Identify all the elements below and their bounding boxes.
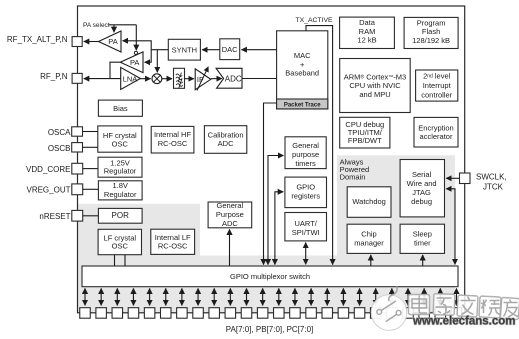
wire: GPIO pin 18 to mux (bidirectional) bbox=[359, 288, 361, 305]
wire: GPIO pin 10 to mux (bidirectional) bbox=[229, 288, 231, 305]
wire: GPIO pin 20 to mux (bidirectional) bbox=[391, 288, 393, 305]
pin VREG_OUT bbox=[72, 184, 83, 195]
GPIO pin 21 (PA/PB/PC) bbox=[403, 308, 414, 319]
wire: GPIO pin 13 to mux (bidirectional) bbox=[278, 288, 280, 305]
svg-text:Regulator: Regulator bbox=[104, 190, 137, 199]
wire VDD_CORE to 1.25V regulator bbox=[83, 168, 98, 170]
pin VDD_CORE bbox=[72, 163, 83, 174]
wire: GPIO pin 17 to mux (bidirectional) bbox=[342, 288, 344, 305]
wire: SYNTH LO to mixer bbox=[156, 50, 158, 73]
wire: GPIO pin 23 to mux (bidirectional) bbox=[439, 288, 441, 305]
chip boundary bbox=[78, 6, 465, 313]
svg-text:manager: manager bbox=[354, 238, 384, 247]
svg-text:registers: registers bbox=[291, 191, 320, 200]
wire: GPIO pin 11 to mux (bidirectional) bbox=[246, 288, 248, 305]
GPIO pin 3 (PA/PB/PC) bbox=[112, 308, 123, 319]
svg-text:RAM: RAM bbox=[359, 27, 376, 36]
GPIO pin 9 (PA/PB/PC) bbox=[209, 308, 220, 319]
wire: GPIO pin 3 to mux (bidirectional) bbox=[116, 288, 118, 305]
amplifier LNA bbox=[121, 67, 141, 89]
svg-text:Domain: Domain bbox=[340, 173, 366, 182]
svg-text:GPIO multiplexor switch: GPIO multiplexor switch bbox=[230, 272, 310, 281]
wire: PA1 output to RF_TX_ALT pin bbox=[84, 41, 99, 43]
svg-text:12 kB: 12 kB bbox=[357, 36, 376, 45]
wire: Serial Wire debug to mux (via JTAG) bbox=[446, 189, 455, 265]
wire: IF amp to ADC bbox=[211, 78, 222, 80]
svg-text:DAC: DAC bbox=[222, 45, 238, 54]
block Watchdog bbox=[347, 187, 391, 218]
wire: GPIO pin 24 to mux (bidirectional) bbox=[455, 288, 457, 305]
wire OSCB to HF crystal OSC bbox=[83, 146, 98, 148]
svg-text:Interrupt: Interrupt bbox=[423, 81, 452, 90]
wire: Packet Trace to mux bbox=[264, 103, 277, 265]
block MAC + Baseband bbox=[277, 31, 328, 109]
amplifier PA1 (RF_TX_ALT path) bbox=[99, 31, 122, 52]
GPIO pin 13 (PA/PB/PC) bbox=[274, 308, 285, 319]
wire: GPIO pin 5 to mux (bidirectional) bbox=[149, 288, 151, 305]
svg-text:ADC: ADC bbox=[218, 139, 234, 148]
wire: filter to IF amp bbox=[185, 78, 194, 80]
GPIO pin 22 (PA/PB/PC) bbox=[419, 308, 430, 319]
svg-text:RF_P,N: RF_P,N bbox=[40, 72, 68, 81]
mixer bbox=[152, 74, 162, 84]
wire: RF pin to LNA / PA junction bbox=[84, 78, 121, 80]
amplifier PA2 (RF path) bbox=[120, 52, 143, 73]
pin RF_TX_ALT_P,N bbox=[72, 37, 82, 47]
block Internal HF RC-OSC bbox=[151, 126, 194, 153]
GPIO pin 20 (PA/PB/PC) bbox=[387, 308, 398, 319]
svg-text:ADC: ADC bbox=[225, 74, 242, 83]
svg-text:OSCB: OSCB bbox=[48, 144, 71, 153]
wire: mux to General Purpose ADC bbox=[229, 229, 231, 266]
GPIO pin 14 (PA/PB/PC) bbox=[290, 308, 301, 319]
svg-text:POR: POR bbox=[112, 211, 130, 220]
inversion bubble on PA2 enable bbox=[134, 51, 137, 54]
IF variable-gain amplifier bbox=[195, 69, 211, 90]
svg-text:SPI/TWI: SPI/TWI bbox=[292, 228, 320, 237]
always-on domain shading (right / Always Powered Domain) bbox=[337, 155, 455, 312]
wire: PA select to PA2 enable (inverted) bbox=[135, 25, 137, 50]
wire: GPIO pin 19 to mux (bidirectional) bbox=[375, 288, 377, 305]
svg-text:JTAG: JTAG bbox=[412, 188, 431, 197]
svg-text:GPIO: GPIO bbox=[296, 183, 315, 192]
always-on domain shading (bottom strip) bbox=[78, 256, 456, 313]
svg-text:Sleep: Sleep bbox=[413, 229, 432, 238]
svg-text:SYNTH: SYNTH bbox=[172, 46, 197, 55]
pin SWCLK/JTCK bbox=[460, 173, 471, 184]
block Data RAM 12 kB bbox=[340, 17, 395, 48]
svg-text:acclerator: acclerator bbox=[420, 132, 453, 141]
GPIO pin 23 (PA/PB/PC) bbox=[435, 308, 446, 319]
svg-text:PA[7:0], PB[7:0], PC[7:0]: PA[7:0], PB[7:0], PC[7:0] bbox=[226, 325, 313, 334]
block Internal LF RC-OSC bbox=[151, 229, 195, 254]
block SYNTH bbox=[168, 39, 200, 60]
block CPU debug TPIU/ITM/FPB/DWT bbox=[340, 117, 390, 148]
wire: SYNTH output to PA junction bbox=[151, 49, 168, 51]
svg-text:OSCA: OSCA bbox=[48, 128, 71, 137]
block Serial Wire and JTAG debug bbox=[400, 160, 444, 217]
block ARM Cortex-M3 CPU bbox=[340, 59, 411, 113]
block GPIO registers bbox=[285, 177, 327, 208]
block DAC bbox=[220, 39, 240, 60]
svg-text:RC-OSC: RC-OSC bbox=[158, 241, 188, 250]
GPIO pin 24 (PA/PB/PC) bbox=[451, 308, 462, 319]
wire: DAC to SYNTH bbox=[202, 49, 220, 51]
wire nRESET to POR bbox=[83, 215, 99, 217]
GPIO pin 12 (PA/PB/PC) bbox=[257, 308, 268, 319]
wire: GPIO pin 1 to mux (bidirectional) bbox=[84, 288, 86, 305]
svg-text:and MPU: and MPU bbox=[359, 90, 390, 99]
svg-text:Regulator: Regulator bbox=[104, 167, 137, 176]
svg-text:+: + bbox=[300, 60, 305, 69]
svg-text:Calibration: Calibration bbox=[208, 130, 244, 139]
wire OSCA to HF crystal OSC bbox=[83, 131, 98, 133]
svg-text:purpose: purpose bbox=[292, 150, 319, 159]
wire: UART to mux (bidirectional) bbox=[305, 243, 307, 265]
block Sleep timer bbox=[400, 224, 444, 253]
wire: GPIO pin 21 to mux (bidirectional) bbox=[407, 288, 409, 305]
wire: mux to Sleep timer bbox=[422, 255, 424, 266]
svg-text:VREG_OUT: VREG_OUT bbox=[26, 185, 70, 194]
wire: MAC to DAC bbox=[241, 49, 276, 51]
svg-text:2nd level: 2nd level bbox=[423, 72, 451, 81]
pin OSCA bbox=[72, 127, 83, 136]
svg-text:debug: debug bbox=[411, 197, 432, 206]
wire: GPIO pin 2 to mux (bidirectional) bbox=[100, 288, 102, 305]
block LF crystal OSC bbox=[98, 229, 141, 254]
GPIO pin 8 (PA/PB/PC) bbox=[193, 308, 204, 319]
svg-text:RF_TX_ALT_P,N: RF_TX_ALT_P,N bbox=[7, 35, 68, 44]
GPIO pin 7 (PA/PB/PC) bbox=[177, 308, 188, 319]
wire VREG_OUT to 1.8V regulator bbox=[83, 188, 99, 190]
wire: mux to Chip manager bbox=[370, 255, 372, 266]
wire: GPIO pin 22 to mux (bidirectional) bbox=[423, 288, 425, 305]
wire: ADC to MAC bbox=[242, 78, 277, 80]
wire: mux to timers bbox=[268, 156, 284, 265]
svg-text:TX_ACTIVE: TX_ACTIVE bbox=[296, 17, 333, 24]
wire: synth to PA1 input bbox=[123, 41, 152, 50]
GPIO pin 16 (PA/PB/PC) bbox=[322, 308, 333, 319]
pin nRESET bbox=[72, 210, 83, 221]
svg-text:CPU with NVIC: CPU with NVIC bbox=[349, 81, 401, 90]
svg-text:FPB/DWT: FPB/DWT bbox=[348, 136, 382, 145]
wire: GPIO pin 9 to mux (bidirectional) bbox=[213, 288, 215, 305]
svg-text:nRESET: nRESET bbox=[39, 212, 70, 221]
block Bias bbox=[98, 100, 142, 116]
block UART/SPI/TWI bbox=[285, 213, 327, 241]
GPIO pin 5 (PA/PB/PC) bbox=[144, 308, 155, 319]
svg-text:128/192 kB: 128/192 kB bbox=[412, 36, 450, 45]
block 2nd level Interrupt controller bbox=[416, 70, 458, 101]
svg-text:PA: PA bbox=[108, 37, 117, 46]
wire: LNA to mixer bbox=[140, 78, 150, 80]
block 1.8V Regulator bbox=[98, 181, 142, 200]
wire: GPIO pin 12 to mux (bidirectional) bbox=[262, 288, 264, 305]
wire: TX_ACTIVE from MAC to mux bbox=[306, 26, 333, 265]
wire: synth to PA2 input bbox=[145, 50, 152, 63]
svg-text:UART/: UART/ bbox=[295, 219, 318, 228]
GPIO pin 15 (PA/PB/PC) bbox=[306, 308, 317, 319]
svg-text:timers: timers bbox=[295, 159, 316, 168]
svg-text:Flash: Flash bbox=[422, 27, 440, 36]
channel filter bbox=[174, 68, 185, 88]
svg-text:Baseband: Baseband bbox=[285, 69, 319, 78]
svg-text:ADC: ADC bbox=[222, 219, 238, 228]
gain-control arrow through IF amp bbox=[197, 67, 208, 91]
svg-text:PA: PA bbox=[130, 58, 139, 67]
block Program Flash 128/192 kB bbox=[404, 17, 458, 48]
block Calibration ADC bbox=[204, 126, 246, 154]
block General Purpose ADC bbox=[208, 202, 252, 228]
wire: GPIO pin 8 to mux (bidirectional) bbox=[197, 288, 199, 305]
svg-text:JTCK: JTCK bbox=[483, 182, 504, 191]
block Encryption acclerator bbox=[414, 117, 458, 147]
wire: GPIO pin 6 to mux (bidirectional) bbox=[165, 288, 167, 305]
svg-text:SWCLK,: SWCLK, bbox=[476, 173, 507, 182]
GPIO pin 1 (PA/PB/PC) bbox=[80, 308, 91, 319]
block ADC (receive) bbox=[216, 68, 242, 88]
wire: mixer to channel filter bbox=[162, 78, 172, 80]
svg-text:Packet Trace: Packet Trace bbox=[284, 102, 321, 108]
GPIO pin 17 (PA/PB/PC) bbox=[338, 308, 349, 319]
wire: PA select to PA1 enable bbox=[113, 25, 115, 32]
svg-text:Bias: Bias bbox=[113, 104, 128, 113]
svg-text:www.elecfans.com: www.elecfans.com bbox=[412, 316, 515, 328]
svg-text:Chip: Chip bbox=[361, 229, 376, 238]
wire: GPIO pin 7 to mux (bidirectional) bbox=[181, 288, 183, 305]
svg-text:LNA: LNA bbox=[123, 74, 138, 83]
wire: GPIO pin 4 to mux (bidirectional) bbox=[132, 288, 134, 305]
GPIO pin 19 (PA/PB/PC) bbox=[370, 308, 381, 319]
GPIO pin 2 (PA/PB/PC) bbox=[96, 308, 107, 319]
wire: GPIO pin 15 to mux (bidirectional) bbox=[310, 288, 312, 305]
block Chip manager bbox=[347, 224, 391, 253]
svg-text:Purpose: Purpose bbox=[216, 210, 244, 219]
svg-text:Wire and: Wire and bbox=[407, 179, 437, 188]
GPIO pin 4 (PA/PB/PC) bbox=[128, 308, 139, 319]
block General purpose timers bbox=[285, 137, 326, 169]
svg-text:Watchdog: Watchdog bbox=[352, 197, 386, 206]
wire: GPIO pin 14 to mux (bidirectional) bbox=[294, 288, 296, 305]
wire: mux to GPIO registers bbox=[275, 192, 283, 265]
pin OSCB bbox=[72, 143, 83, 152]
svg-text:PA select: PA select bbox=[83, 22, 110, 29]
svg-text:General: General bbox=[292, 141, 319, 150]
wire: PA2 output to RF pin junction bbox=[110, 62, 120, 78]
svg-text:1.8V: 1.8V bbox=[112, 181, 127, 190]
block POR bbox=[98, 208, 142, 223]
svg-text:MAC: MAC bbox=[294, 51, 311, 60]
GPIO pin 10 (PA/PB/PC) bbox=[225, 308, 236, 319]
svg-text:Serial: Serial bbox=[412, 170, 432, 179]
svg-text:VDD_CORE: VDD_CORE bbox=[26, 165, 70, 174]
svg-text:RC-OSC: RC-OSC bbox=[158, 139, 188, 148]
svg-text:Internal HF: Internal HF bbox=[154, 130, 192, 139]
svg-text:timer: timer bbox=[414, 238, 431, 247]
block: GPIO multiplexor switch bbox=[82, 266, 458, 287]
GPIO pin 6 (PA/PB/PC) bbox=[161, 308, 172, 319]
always-on domain shading (left) bbox=[78, 204, 201, 313]
watermark: elecfans plug logo bbox=[371, 286, 407, 330]
watermark: chinese characters dian-zi-fa-shao-you (vector approximation) bbox=[409, 294, 519, 320]
wire: SWCLK pin to Serial Wire debug bbox=[446, 177, 459, 179]
svg-text:ARM® Cortex™-M3: ARM® Cortex™-M3 bbox=[344, 72, 406, 81]
svg-text:OSC: OSC bbox=[112, 139, 129, 148]
pin RF_P,N bbox=[72, 73, 82, 83]
GPIO pin 18 (PA/PB/PC) bbox=[354, 308, 365, 319]
svg-text:OSC: OSC bbox=[112, 242, 129, 251]
svg-text:controller: controller bbox=[421, 90, 452, 99]
GPIO pin 11 (PA/PB/PC) bbox=[241, 308, 252, 319]
wires: LF crystal OSC to mux bbox=[114, 255, 116, 266]
svg-text:General: General bbox=[217, 201, 244, 210]
block Packet Trace bbox=[277, 99, 328, 109]
wire: GPIO pin 16 to mux (bidirectional) bbox=[326, 288, 328, 305]
wire: PA select control bbox=[109, 24, 137, 26]
block 1.25V Regulator bbox=[98, 157, 142, 177]
block HF crystal OSC bbox=[98, 126, 142, 152]
